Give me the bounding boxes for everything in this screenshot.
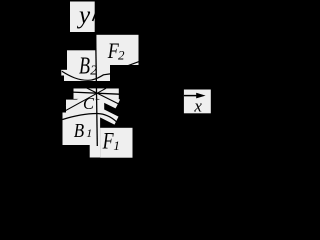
white nub at left end of upper branch curve [61, 70, 67, 76]
label box B2 [67, 50, 100, 74]
label box F2 [96, 35, 138, 65]
svg-text:B: B [79, 52, 90, 79]
label box F1 [100, 128, 132, 158]
white halo along positive asymptote lower right [103, 97, 118, 104]
label box B1 [63, 113, 101, 146]
white strip under upper branch curve [64, 71, 110, 81]
white halo along x axis in center [74, 88, 119, 99]
svg-text:C: C [83, 94, 95, 113]
y axis arrowhead [97, 2, 101, 7]
x axis arrowhead [196, 93, 205, 99]
x axis arrow inside x box [184, 95, 198, 97]
asymptote positive slope [80, 85, 120, 105]
hyperbola upper branch arc in F2 box corner [129, 62, 140, 66]
svg-text:F: F [102, 129, 114, 154]
asymptote negative slope [65, 88, 107, 111]
svg-text:1: 1 [86, 126, 92, 140]
y axis top diagonal segment [93, 4, 100, 21]
white box around label C [66, 100, 104, 116]
hyperbola lower branch left [63, 113, 98, 119]
white halo along positive asymptote [86, 88, 118, 104]
label box x [184, 90, 211, 114]
svg-text:B: B [74, 120, 84, 143]
hyperbola lower branch right [97, 114, 116, 122]
svg-text:y: y [76, 2, 91, 29]
hyperbola upper branch [62, 71, 110, 80]
white halo along y axis below B1 [90, 136, 100, 158]
white connector under F2 box left part [96, 64, 110, 78]
x axis [70, 92, 119, 94]
svg-text:x: x [193, 97, 202, 116]
svg-text:2: 2 [90, 62, 97, 77]
white halo along lower branch right [100, 112, 117, 120]
y axis main vertical line [96, 30, 98, 146]
label box y [70, 2, 95, 33]
white halo along negative asymptote [68, 90, 104, 110]
svg-text:2: 2 [118, 48, 125, 63]
svg-text:1: 1 [113, 138, 120, 153]
black gap band above center box [58, 81, 126, 88]
